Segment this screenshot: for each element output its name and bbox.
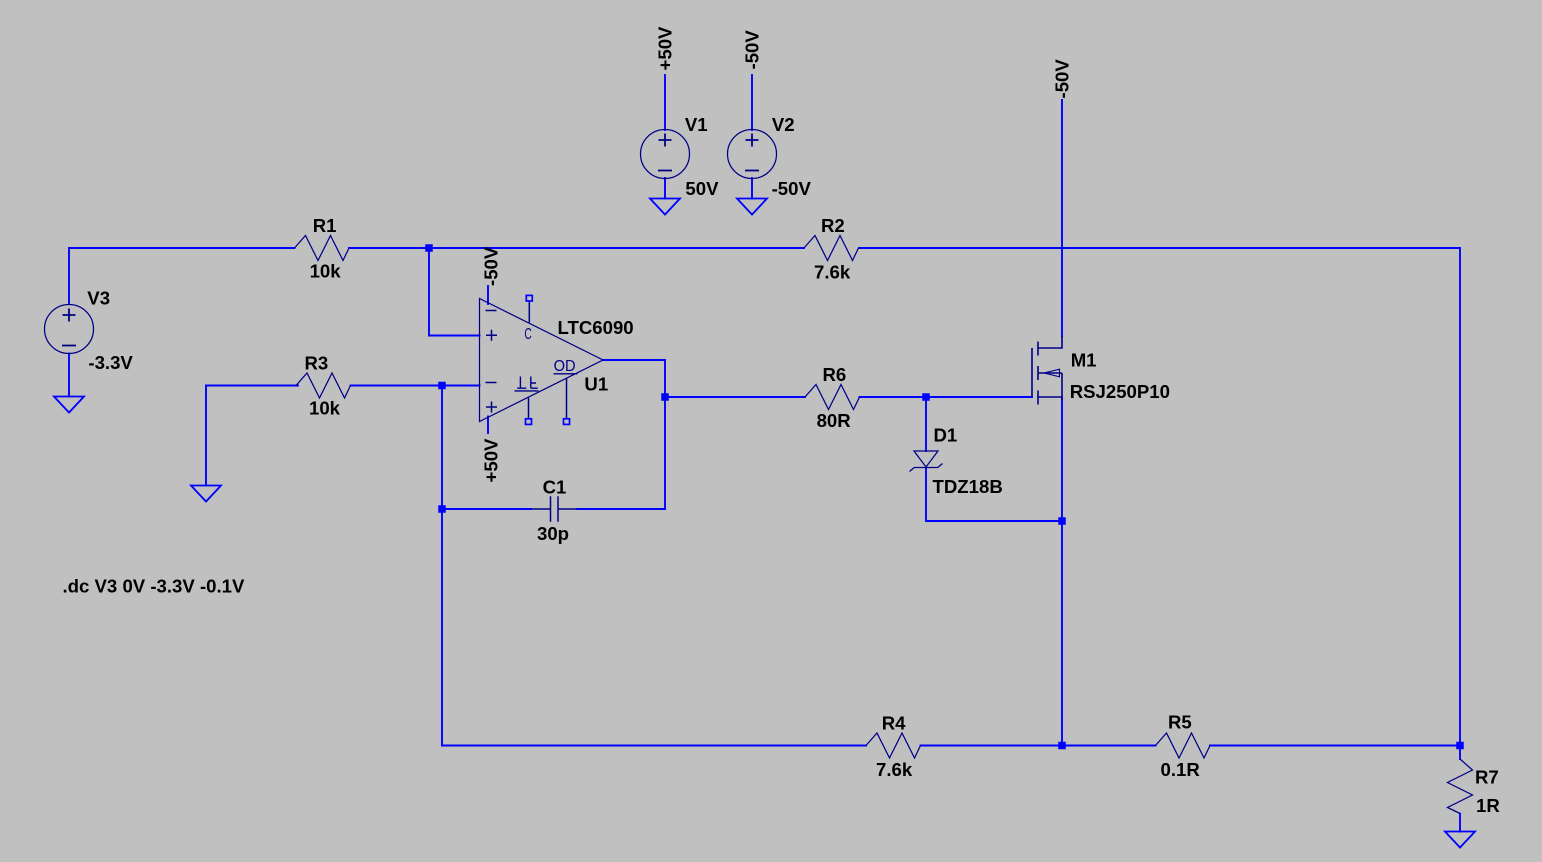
svg-text:-50V: -50V <box>1052 59 1073 99</box>
transistor M1 (PMOS) body <box>1032 336 1062 405</box>
svg-text:TDZ18B: TDZ18B <box>933 476 1003 497</box>
svg-text:+50V: +50V <box>481 438 502 483</box>
svg-text:30p: 30p <box>537 523 569 544</box>
wire right vertical rail <box>1459 248 1461 746</box>
ground (under R7) <box>1445 832 1475 848</box>
wire V2 minus lead <box>751 178 753 199</box>
wire U1 V- pin lead <box>487 286 489 304</box>
wire R3 left lead <box>206 385 298 387</box>
svg-text:-50V: -50V <box>742 30 763 70</box>
wire R3 input to ground <box>205 386 207 486</box>
svg-text:50V: 50V <box>685 178 719 199</box>
wire feedback vertical <box>441 386 443 746</box>
svg-text:1R: 1R <box>1476 795 1500 816</box>
resistor R2 body <box>804 236 859 261</box>
capacitor C1 <box>531 496 577 521</box>
wire V2 plus lead <box>751 75 753 130</box>
resistor R7 body (vertical) <box>1448 759 1473 814</box>
resistor R5 body <box>1156 733 1211 758</box>
junction node C (C1 left) <box>438 505 446 513</box>
wire M1 source down <box>1061 397 1063 746</box>
svg-text:V3: V3 <box>87 287 110 308</box>
ground (under V2) <box>737 199 767 215</box>
wire C1 left <box>442 508 531 510</box>
svg-text:7.6k: 7.6k <box>814 262 851 283</box>
wire top rail left to R1 <box>69 247 295 249</box>
ground (under V3) <box>54 397 84 413</box>
wire D1 cathode lead <box>925 397 927 451</box>
wire R7 bottom lead <box>1459 814 1461 832</box>
op-amp U1 +IN mark <box>486 330 497 341</box>
svg-text:V2: V2 <box>772 114 795 135</box>
resistor R6 body <box>805 385 860 410</box>
voltage source V1 symbol <box>641 130 690 179</box>
junction node A (R1/R2/+IN) <box>425 244 433 252</box>
transistor M1 body-diode arrow <box>1044 369 1060 377</box>
wire node A to op-amp +IN <box>429 248 480 336</box>
op-amp U1 V- rail mark <box>486 310 497 312</box>
svg-text:R3: R3 <box>305 353 329 374</box>
wire bottom rail left to R4 <box>442 745 866 747</box>
wire output node to R6 <box>665 396 805 398</box>
op-amp U1 pin C stub <box>528 302 530 323</box>
svg-text:C: C <box>524 326 531 343</box>
svg-text:C1: C1 <box>543 477 567 498</box>
svg-text:D1: D1 <box>934 425 958 446</box>
svg-text:OD: OD <box>554 358 576 375</box>
svg-text:-50V: -50V <box>481 246 502 286</box>
wire bottom rail R4 to R5 <box>921 745 1156 747</box>
svg-text:10k: 10k <box>310 260 342 281</box>
op-amp U1 TF pin open square <box>526 419 532 425</box>
op-amp U1 pin C open square <box>526 295 532 301</box>
junction node D1/source <box>1058 517 1066 525</box>
wire V3 minus lead <box>68 354 70 397</box>
resistor R4 body <box>866 733 921 758</box>
junction node R4/R5/source <box>1058 742 1066 750</box>
op-amp U1 -IN mark <box>486 382 497 384</box>
svg-text:80R: 80R <box>817 410 852 431</box>
wire D1 anode to source net <box>926 468 1062 522</box>
wire top rail R2 to right edge <box>859 247 1460 249</box>
svg-text:0.1R: 0.1R <box>1161 759 1201 780</box>
svg-text:+50V: +50V <box>655 26 676 71</box>
op-amp U1 TF pin stub <box>528 397 530 419</box>
resistor R1 body <box>295 236 350 261</box>
wire op-amp output lead <box>603 359 665 361</box>
svg-text:V1: V1 <box>685 114 708 135</box>
wire R7 top lead <box>1459 746 1461 760</box>
wire V1 minus lead <box>664 178 666 199</box>
svg-text:M1: M1 <box>1071 350 1097 371</box>
voltage source V3 symbol <box>45 305 94 354</box>
wire C1 right <box>577 508 665 510</box>
svg-text:LTC6090: LTC6090 <box>558 317 634 338</box>
svg-text:R2: R2 <box>821 215 845 236</box>
svg-text:R4: R4 <box>882 713 906 734</box>
svg-text:U1: U1 <box>584 374 608 395</box>
op-amp U1 triangle <box>480 299 604 422</box>
wire U1 V+ pin lead <box>487 417 489 434</box>
svg-text:R5: R5 <box>1168 712 1192 733</box>
svg-text:R7: R7 <box>1475 767 1499 788</box>
wire R3 to op-amp -IN <box>351 385 480 387</box>
junction node gate/D1 <box>922 393 930 401</box>
ground (under V1) <box>650 199 680 215</box>
wire output vertical <box>664 360 666 509</box>
svg-text:-3.3V: -3.3V <box>88 352 133 373</box>
svg-text:RSJ250P10: RSJ250P10 <box>1070 381 1170 402</box>
voltage source V2 symbol <box>728 130 777 179</box>
svg-text:7.6k: 7.6k <box>876 759 913 780</box>
resistor R3 body <box>296 373 351 398</box>
junction node B (-IN) <box>438 382 446 390</box>
op-amp U1 TF pin label glyphs <box>515 377 539 391</box>
junction node OUT <box>661 393 669 401</box>
svg-text:-50V: -50V <box>772 178 812 199</box>
op-amp U1 V+ rail mark <box>486 402 497 413</box>
svg-text:.dc V3 0V -3.3V -0.1V: .dc V3 0V -3.3V -0.1V <box>63 576 245 597</box>
svg-text:R6: R6 <box>823 364 847 385</box>
wire -50V net vertical <box>1061 100 1063 336</box>
junction node R5/R7 <box>1456 742 1464 750</box>
svg-text:R1: R1 <box>313 215 337 236</box>
diode D1 (zener) body <box>910 451 943 472</box>
op-amp U1 OD pin open square <box>564 419 570 425</box>
wire R6 to M1 gate <box>860 396 1033 398</box>
wire bottom rail R5 to right <box>1210 745 1460 747</box>
wire V3 top lead <box>68 248 70 303</box>
wire top rail R1 to R2 <box>349 247 804 249</box>
wire V1 plus lead <box>664 75 666 130</box>
ground (under R3) <box>191 486 221 502</box>
svg-text:10k: 10k <box>309 398 341 419</box>
op-amp U1 OD pin stub <box>566 379 568 419</box>
